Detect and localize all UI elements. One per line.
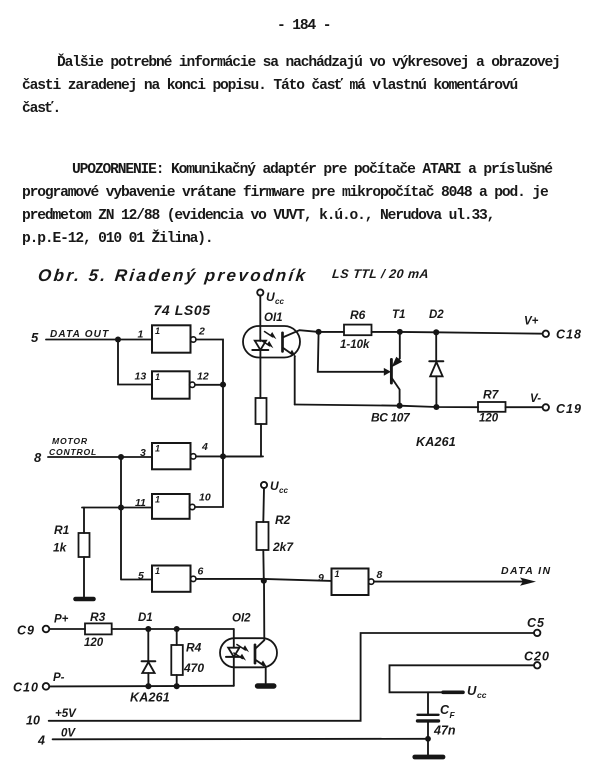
wire DATA OUT — [46, 339, 152, 341]
node DATA OUT junction — [115, 336, 121, 342]
svg-text:V+: V+ — [524, 316, 539, 328]
svg-text:9: 9 — [318, 572, 324, 584]
node D1 bottom junction — [145, 683, 151, 689]
svg-text:OI2: OI2 — [232, 613, 251, 625]
node pin4 bus junction — [220, 453, 226, 459]
svg-text:U: U — [467, 683, 477, 698]
transistor T1 BC107 — [318, 332, 402, 406]
svg-text:cc: cc — [279, 486, 288, 495]
ground below CF — [415, 739, 443, 757]
OI1 LED — [252, 341, 268, 398]
op gate U1D 74LS05 (pins 11-10) — [152, 494, 195, 519]
svg-text:1k: 1k — [53, 541, 68, 555]
diode D1 — [142, 629, 156, 686]
OI1 light arrows — [262, 332, 277, 349]
terminal Ucc above OI1 — [257, 289, 263, 295]
node R4 bottom junction — [174, 683, 180, 689]
node D2 top junction — [433, 329, 439, 335]
svg-text:1: 1 — [155, 444, 160, 454]
svg-text:R6: R6 — [350, 308, 366, 322]
paragraph 1 line 1 — [57, 56, 560, 71]
svg-text:2k7: 2k7 — [272, 540, 294, 554]
terminal C10 — [43, 683, 50, 690]
svg-text:T1: T1 — [392, 309, 405, 321]
op gate U1B 74LS05 (pins 13-12) — [152, 371, 195, 398]
svg-text:U: U — [266, 290, 275, 304]
wire Ucc to OI1 LED — [259, 296, 261, 341]
resistor R6 — [344, 325, 372, 336]
wire gate U1B output to bus — [195, 384, 223, 386]
wire R3 to OI2 LED anode — [112, 628, 234, 630]
svg-text:cc: cc — [275, 297, 284, 306]
wire gate U1A output to vertical bus — [196, 340, 223, 385]
paragraph 2 line 4 — [22, 232, 212, 247]
svg-text:470: 470 — [183, 661, 204, 675]
svg-text:1: 1 — [138, 329, 144, 341]
wire +5V rail up to C5 — [49, 633, 534, 721]
terminal C18 — [543, 331, 549, 337]
svg-text:C19: C19 — [556, 402, 582, 416]
svg-text:P-: P- — [53, 672, 65, 684]
svg-text:Obr. 5. Riadený prevodník: Obr. 5. Riadený prevodník — [37, 266, 309, 285]
svg-text:74 LS05: 74 LS05 — [154, 302, 211, 318]
svg-text:1-10k: 1-10k — [340, 339, 370, 351]
Ucc stub bar — [443, 690, 463, 694]
svg-text:OI1: OI1 — [264, 312, 283, 324]
node MOTOR CONTROL junction — [118, 454, 124, 460]
svg-text:0V: 0V — [61, 728, 76, 740]
svg-text:R1: R1 — [54, 523, 70, 537]
wire C9 to R3 — [49, 628, 85, 630]
svg-text:KA261: KA261 — [130, 691, 170, 705]
svg-text:1: 1 — [335, 569, 340, 579]
node pin12 bus junction — [220, 382, 226, 388]
OI2 light arrows — [234, 645, 249, 661]
svg-text:10: 10 — [199, 492, 211, 504]
terminal C19 — [543, 404, 549, 410]
node R4 top junction — [174, 626, 180, 632]
wire C20 to Ucc stub — [390, 665, 534, 692]
svg-text:1: 1 — [155, 326, 160, 336]
svg-text:+5V: +5V — [55, 708, 77, 720]
svg-text:5: 5 — [138, 570, 144, 582]
wire bottom rail OI1 emitter to R7 — [295, 405, 478, 408]
wire MOTOR CONTROL — [48, 456, 152, 458]
svg-text:R2: R2 — [275, 513, 291, 527]
node T1 top junction — [397, 329, 403, 335]
op gate U1A 74LS05 (pins 1-2) — [152, 325, 196, 352]
svg-text:C20: C20 — [524, 650, 550, 664]
OI1 phototransistor — [283, 330, 319, 404]
svg-text:1: 1 — [155, 494, 160, 504]
node T1 emitter junction — [397, 403, 403, 409]
svg-text:C: C — [440, 703, 450, 717]
terminal C5 — [534, 630, 540, 636]
svg-text:8: 8 — [34, 450, 42, 465]
svg-text:C10: C10 — [13, 681, 39, 695]
wire junction to gate U1B input pin 13 — [118, 340, 152, 385]
capacitor CF — [418, 692, 439, 739]
svg-text:KA261: KA261 — [416, 435, 456, 449]
wire R7 to C19 — [506, 406, 543, 408]
svg-text:13: 13 — [135, 371, 147, 383]
svg-text:DATA OUT: DATA OUT — [50, 329, 109, 340]
svg-text:V-: V- — [530, 393, 541, 405]
svg-text:MOTOR: MOTOR — [52, 436, 88, 446]
svg-text:8: 8 — [377, 569, 383, 581]
svg-text:D1: D1 — [138, 612, 153, 624]
figure title Obr. 5 — [37, 266, 430, 285]
wire gate U1E output to R2 node — [196, 579, 332, 581]
paragraph 2 line 1 — [72, 163, 552, 178]
terminal C9 — [43, 626, 50, 633]
node R2 bottom junction — [261, 578, 267, 584]
resistor R1 — [79, 508, 90, 598]
svg-text:R7: R7 — [483, 388, 500, 402]
OI2 LED — [226, 629, 241, 686]
ground below R1 — [76, 597, 94, 602]
svg-text:cc: cc — [477, 690, 487, 700]
svg-text:R4: R4 — [186, 641, 202, 655]
svg-text:10: 10 — [26, 714, 40, 728]
svg-text:120: 120 — [479, 413, 499, 425]
terminal C20 — [534, 662, 540, 668]
svg-text:D2: D2 — [429, 309, 444, 321]
node pin11/R1 junction — [118, 504, 124, 510]
op gate U1E 74LS05 (pins 5-6) — [152, 566, 196, 592]
wire 0V rail to CF — [53, 738, 428, 741]
svg-text:6: 6 — [198, 566, 204, 578]
svg-text:12: 12 — [197, 371, 209, 383]
resistor R2 — [257, 488, 269, 581]
svg-text:4: 4 — [37, 734, 45, 748]
svg-text:P+: P+ — [54, 614, 69, 626]
svg-text:5: 5 — [31, 330, 39, 345]
wire top rail through R6 to C18 — [319, 332, 543, 334]
svg-text:1: 1 — [155, 372, 160, 382]
resistor R4 — [171, 629, 183, 686]
resistor R7 — [478, 402, 506, 412]
op gate U1F 74LS05 (pins 9-8) — [332, 569, 374, 596]
paragraph 1 line 2 — [22, 79, 517, 94]
svg-text:2: 2 — [198, 326, 205, 338]
resistor R3 — [85, 623, 112, 634]
terminal Ucc above R2 — [261, 482, 267, 488]
node D2 bottom junction — [433, 404, 439, 410]
node D1 top junction — [145, 626, 151, 632]
wire gate U1D output to bus — [195, 456, 223, 507]
paragraph 1 line 3 — [22, 102, 60, 117]
wire bus pin12 down to pin4 line — [222, 385, 224, 457]
diode D2 — [429, 332, 443, 407]
svg-text:4: 4 — [201, 441, 208, 453]
svg-text:U: U — [270, 479, 279, 493]
op gate U1C 74LS05 (pins 3-4) — [152, 443, 196, 469]
svg-text:CONTROL: CONTROL — [49, 447, 97, 457]
svg-text:F: F — [450, 710, 456, 720]
wire C10 to OI2 LED cathode — [49, 685, 234, 688]
wire gate U1C output to OI1 resistor line — [196, 455, 263, 457]
OI2 phototransistor — [255, 640, 267, 683]
svg-text:C5: C5 — [527, 616, 545, 630]
svg-text:C9: C9 — [17, 624, 35, 638]
optocoupler OI1 body — [243, 326, 300, 358]
svg-text:C18: C18 — [556, 328, 582, 342]
ground below OI2 emitter — [258, 683, 274, 688]
svg-text:47n: 47n — [433, 724, 456, 738]
page number — [277, 19, 330, 34]
node OI1 collector / T1 base junction — [316, 329, 322, 335]
svg-text:LS TTL / 20 mA: LS TTL / 20 mA — [331, 267, 429, 281]
paragraph 2 line 3 — [22, 209, 494, 224]
svg-text:120: 120 — [84, 637, 104, 649]
svg-text:DATA IN: DATA IN — [501, 565, 551, 577]
Ucc label at OI1 — [266, 290, 284, 306]
wire junction down to pin11 line and pin5 line — [82, 457, 152, 580]
Ucc label at CF — [467, 683, 487, 700]
svg-text:BC 107: BC 107 — [371, 411, 411, 425]
svg-text:11: 11 — [135, 497, 146, 509]
net label MOTOR CONTROL — [49, 436, 97, 457]
optocoupler OI2 body — [220, 638, 277, 667]
wire R2 node down to OI2 collector — [263, 581, 265, 640]
CF label — [440, 703, 456, 720]
Ucc label at R2 — [270, 479, 288, 495]
wire DATA IN with arrow — [374, 578, 536, 586]
svg-text:3: 3 — [140, 447, 146, 459]
node CF / 0V junction — [425, 736, 431, 742]
resistor below OI1 (LED series) — [223, 398, 267, 456]
svg-text:R3: R3 — [90, 610, 106, 624]
paragraph 2 line 2 — [22, 186, 548, 201]
svg-text:1: 1 — [155, 566, 160, 576]
